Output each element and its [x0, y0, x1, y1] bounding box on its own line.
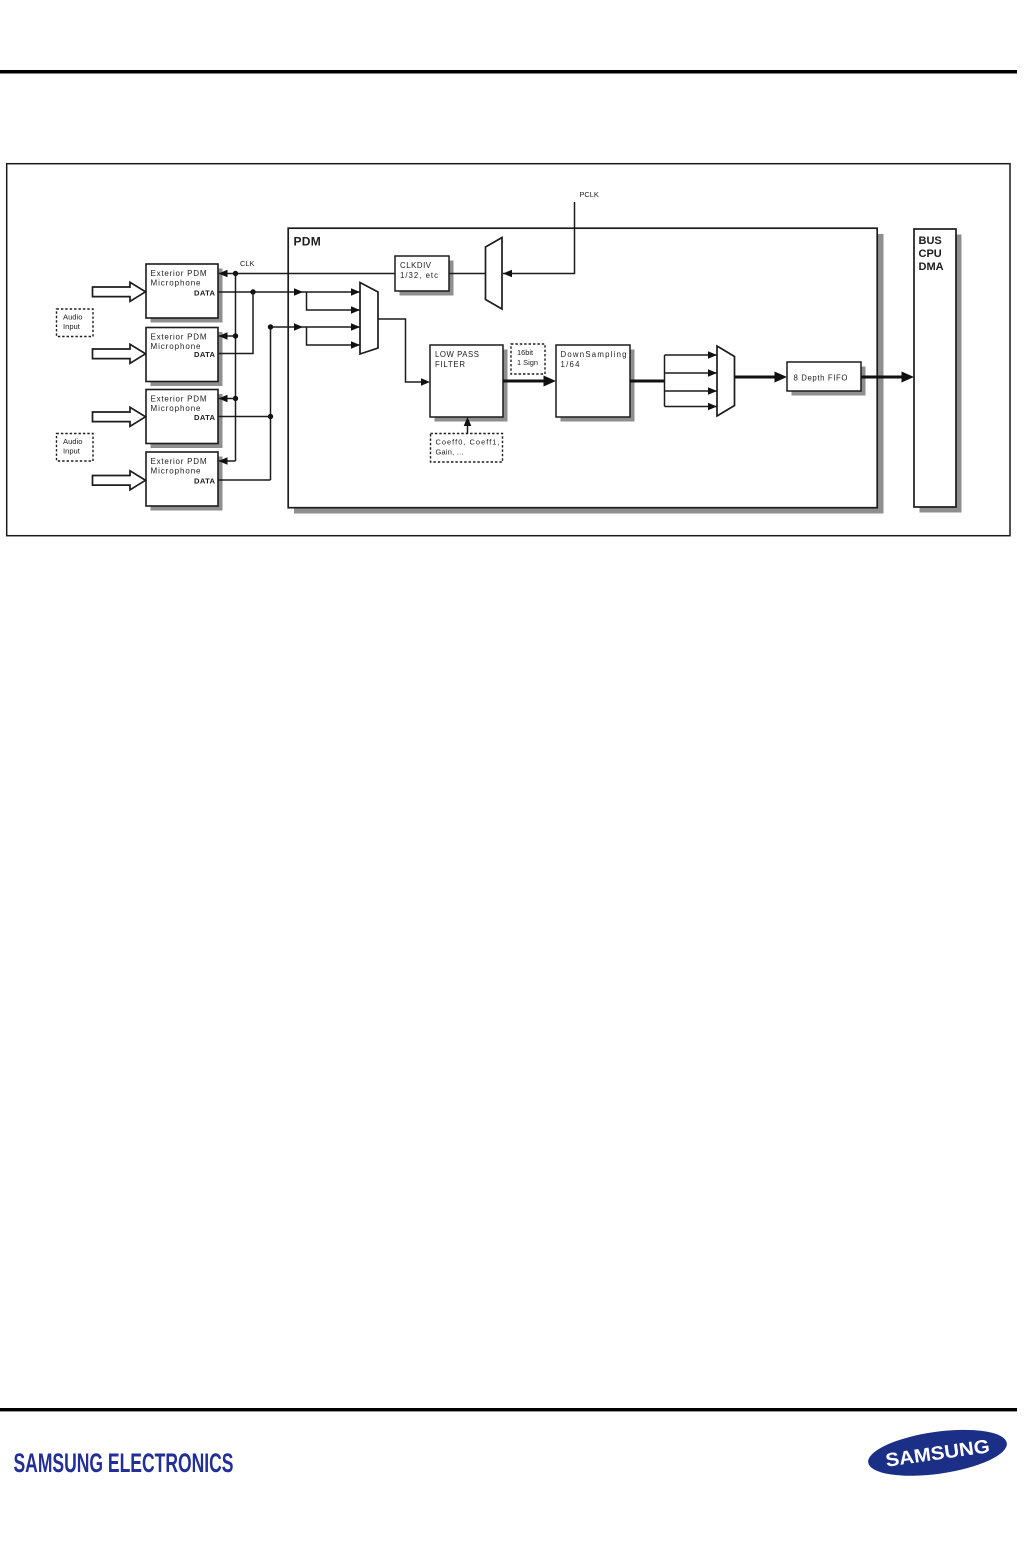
svg-text:CLK: CLK [240, 259, 254, 268]
output mux MUX3 [717, 346, 735, 416]
arrow CLK into MIC3 [219, 395, 228, 403]
wire MUX1 output to LPF [378, 319, 424, 382]
svg-text:PDM: PDM [294, 235, 322, 249]
wire splitter line 2 [665, 372, 718, 374]
svg-text:1/32, etc: 1/32, etc [400, 271, 438, 280]
wire PCLK [503, 202, 575, 274]
wire CLK vertical trunk [235, 274, 237, 462]
arrow splitter 1 into mux [708, 351, 717, 359]
wire thick LPF to DownSampling [503, 380, 546, 383]
svg-text:LOW PASS: LOW PASS [435, 350, 479, 359]
wire splitter line 3 [665, 390, 718, 392]
arrow CLK into MIC1 [219, 270, 228, 278]
arrow DATA-B into mux input 3 [351, 323, 360, 331]
svg-text:CLKDIV: CLKDIV [400, 261, 432, 270]
svg-text:DownSampling: DownSampling [561, 350, 627, 359]
svg-text:PCLK: PCLK [580, 190, 599, 199]
FIFO block [787, 362, 866, 396]
arrow DATA-A at PDM boundary [294, 288, 303, 296]
svg-text:Exterior PDM: Exterior PDM [151, 395, 207, 404]
svg-text:BUS: BUS [919, 235, 942, 247]
arrow into LPF [421, 378, 430, 386]
microphone block MIC4 [146, 452, 223, 511]
svg-text:16bit: 16bit [517, 348, 533, 357]
wire CLK to MIC3 [219, 398, 236, 400]
svg-text:Microphone: Microphone [151, 404, 202, 413]
audio input block arrow 2 [93, 344, 146, 363]
arrow CLK into MIC4 [219, 457, 228, 465]
input mux MUX1 [360, 283, 378, 355]
arrow DATA-B branch into mux input 4 [351, 341, 360, 349]
junction CLK to MIC3 [233, 396, 238, 401]
junction CLK to MIC2 [233, 333, 238, 338]
svg-text:Audio: Audio [63, 313, 82, 322]
arrow DATA-B at PDM boundary [294, 323, 303, 331]
svg-text:DATA: DATA [194, 477, 216, 486]
bottom rule [0, 1408, 1017, 1411]
wire coefficients to LPF [467, 423, 469, 434]
wire splitter line 4 [665, 406, 718, 408]
DownSampling block [556, 345, 635, 422]
svg-text:Input: Input [63, 322, 81, 331]
arrow CLK into MIC2 [219, 332, 228, 340]
svg-text:Microphone: Microphone [151, 467, 202, 476]
arrow into DownSampling [544, 376, 557, 387]
arrow PCLK into clock mux [503, 270, 512, 278]
junction DATA-A MIC2 tap [250, 289, 255, 294]
CLKDIV block [395, 256, 454, 296]
clock mux MUX2 [486, 238, 503, 310]
SAMSUNG oval logo [865, 1422, 1009, 1483]
figure frame [7, 164, 1010, 536]
arrow splitter 3 into mux [708, 387, 717, 395]
audio input block arrow 3 [93, 407, 146, 426]
junction DATA-B top [268, 324, 273, 329]
svg-text:DATA: DATA [194, 289, 216, 298]
svg-text:Microphone: Microphone [151, 279, 202, 288]
16bit 1 Sign annotation [511, 344, 545, 374]
BUS CPU DMA block [914, 229, 962, 513]
junction CLK node [233, 271, 238, 276]
arrow into FIFO [775, 372, 788, 383]
wire thick MUX3 to FIFO [735, 376, 778, 379]
svg-text:1/64: 1/64 [561, 360, 581, 369]
wire thick FIFO to BUS [861, 376, 904, 379]
wire DATA-B branch to mux input 4 [307, 327, 361, 345]
microphone block MIC1 [146, 264, 223, 323]
wire DATA-B vertical riser [270, 327, 272, 480]
svg-text:FILTER: FILTER [435, 360, 465, 369]
PDM block U_PDM [288, 228, 883, 513]
coefficient annotation [431, 434, 503, 463]
wire DATA-B from riser to mux [271, 326, 361, 328]
audio input node 2 [57, 434, 94, 462]
svg-text:Input: Input [63, 447, 81, 456]
wire DATA-A branch to mux input 2 [307, 292, 361, 310]
CLK label [240, 259, 254, 268]
junction DATA-B MIC3 tap [268, 414, 273, 419]
wire MIC4 DATA [218, 479, 271, 481]
arrow coefficients into LPF [464, 417, 472, 426]
arrow DATA-A branch into mux input 2 [351, 306, 360, 314]
wire CLKDIV to clock mux [449, 273, 486, 275]
svg-text:Audio: Audio [63, 437, 82, 446]
svg-text:SAMSUNG ELECTRONICS: SAMSUNG ELECTRONICS [14, 1448, 234, 1478]
svg-text:CPU: CPU [919, 248, 942, 260]
svg-text:DATA: DATA [194, 350, 216, 359]
wire MIC2 DATA riser [218, 292, 253, 354]
arrow splitter 4 into mux [708, 403, 717, 411]
svg-text:Exterior PDM: Exterior PDM [151, 457, 207, 466]
arrow into BUS [902, 372, 915, 383]
wire CLK to MIC2 [219, 335, 236, 337]
wire CLK horizontal to CLKDIV [219, 273, 395, 275]
arrow DATA-A into mux input 1 [351, 288, 360, 296]
PCLK label [580, 190, 599, 199]
microphone block MIC3 [146, 390, 223, 449]
svg-text:8 Depth FIFO: 8 Depth FIFO [794, 374, 848, 383]
wire thick DownSampling to splitter [630, 380, 665, 383]
low pass filter block [430, 345, 508, 422]
arrow splitter 2 into mux [708, 369, 717, 377]
microphone block MIC2 [146, 328, 223, 387]
audio input block arrow 1 [93, 282, 146, 301]
svg-text:Coeff0, Coeff1,: Coeff0, Coeff1, [436, 438, 500, 447]
wire splitter line 1 [665, 354, 718, 356]
top rule [0, 70, 1017, 74]
svg-text:Exterior PDM: Exterior PDM [151, 269, 207, 278]
wire MIC3 DATA [218, 416, 271, 418]
svg-text:1 Sign: 1 Sign [517, 358, 538, 367]
svg-text:Gain, ...: Gain, ... [436, 448, 464, 457]
SAMSUNG ELECTRONICS wordmark [14, 1448, 234, 1478]
audio input block arrow 4 [93, 471, 146, 490]
wire splitter vertical [664, 355, 666, 407]
svg-text:DMA: DMA [919, 261, 944, 273]
wire DATA-A from MIC1 to mux [218, 291, 361, 293]
wire CLK to MIC4 [219, 460, 236, 462]
svg-text:Exterior PDM: Exterior PDM [151, 333, 207, 342]
audio input node 1 [57, 309, 94, 337]
svg-text:DATA: DATA [194, 413, 216, 422]
